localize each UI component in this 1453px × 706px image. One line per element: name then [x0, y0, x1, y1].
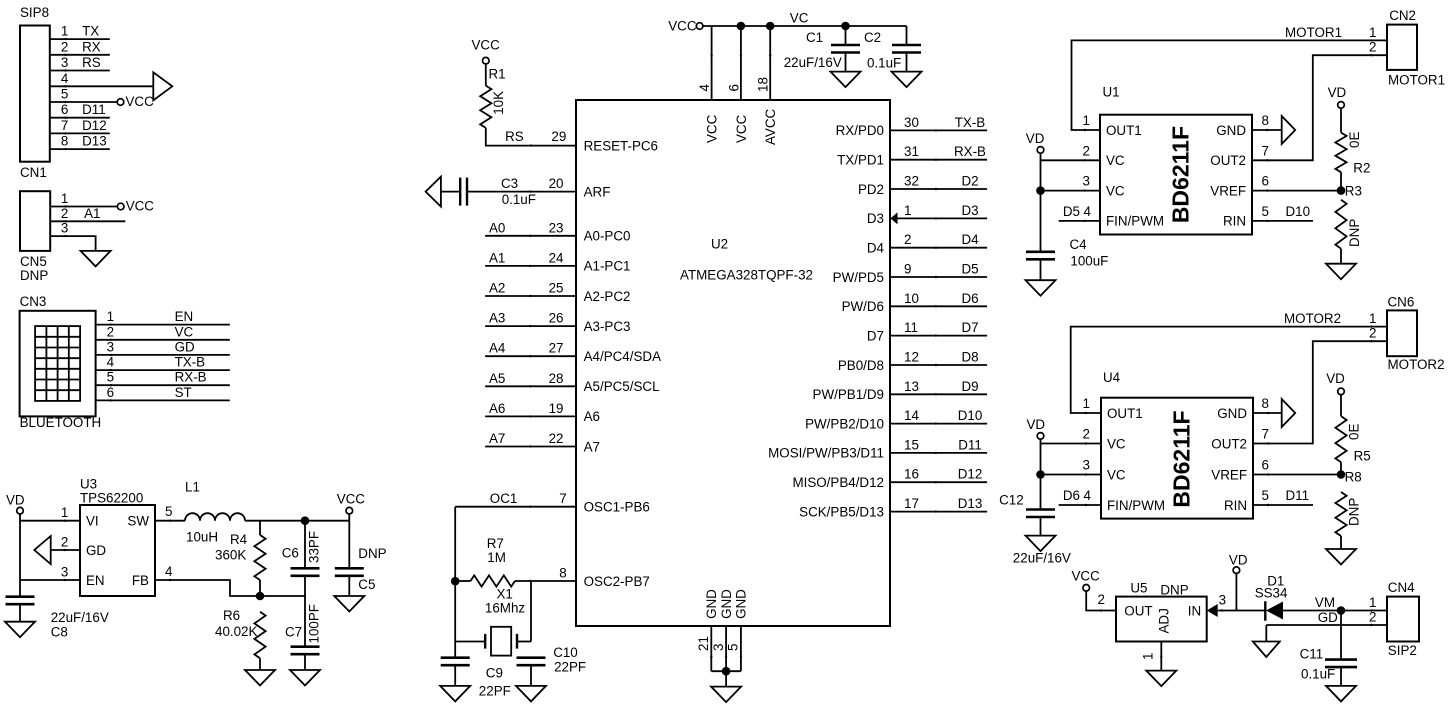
connector CN1 SIP8 body	[20, 26, 50, 162]
CN1 pin 6 net D11	[50, 117, 110, 119]
ground below R8	[1326, 549, 1356, 565]
U1 pin 6 VREF wire	[1252, 190, 1341, 192]
svg-text:D5: D5	[1063, 204, 1080, 219]
svg-text:1: 1	[61, 191, 68, 206]
svg-text:A7: A7	[489, 431, 505, 446]
svg-text:C3: C3	[501, 176, 518, 191]
wire L1 to VCC	[245, 520, 349, 522]
svg-text:ATMEGA328TQPF-32: ATMEGA328TQPF-32	[680, 268, 813, 283]
svg-text:6: 6	[61, 102, 68, 117]
svg-text:22uF/16V: 22uF/16V	[1013, 551, 1071, 566]
svg-text:D7: D7	[961, 320, 978, 335]
svg-text:9: 9	[904, 262, 911, 277]
svg-text:2: 2	[1083, 427, 1090, 442]
ground below C1	[831, 72, 861, 88]
svg-text:MOTOR1: MOTOR1	[1285, 25, 1342, 40]
svg-text:4: 4	[165, 564, 173, 579]
U4 pin 3 VC wire	[1040, 444, 1042, 510]
CN3 module hatch symbol	[35, 326, 80, 401]
svg-text:VD: VD	[6, 492, 25, 507]
svg-text:CN6: CN6	[1388, 295, 1415, 310]
svg-text:6: 6	[1262, 174, 1269, 189]
svg-text:VCC: VCC	[734, 114, 749, 143]
CN5 pin 3	[50, 236, 95, 251]
svg-text:6: 6	[107, 385, 114, 400]
svg-text:100uF: 100uF	[1070, 254, 1108, 269]
U2 right pin MISO/PB4/D12 net D12	[890, 481, 987, 483]
ground below C4	[1026, 280, 1056, 296]
svg-text:3: 3	[1083, 174, 1090, 189]
svg-text:DNP: DNP	[20, 268, 48, 283]
svg-text:12: 12	[904, 350, 919, 365]
wire OSC2 branch down	[530, 581, 532, 642]
svg-text:GND: GND	[719, 589, 734, 619]
U2 left pin A2-PC2	[485, 295, 576, 297]
svg-text:10: 10	[904, 291, 919, 306]
U4 pin 8 GND wire	[1253, 412, 1282, 414]
svg-text:C5: C5	[358, 577, 375, 592]
svg-text:OUT1: OUT1	[1106, 123, 1142, 138]
svg-text:5: 5	[1262, 488, 1269, 503]
svg-text:16: 16	[904, 467, 919, 482]
svg-text:3: 3	[711, 644, 726, 651]
svg-text:1: 1	[1083, 113, 1090, 128]
CN3 pin 5 net RX-B	[96, 384, 230, 386]
svg-text:13: 13	[904, 379, 919, 394]
U2 right pin PW/PB2/D10 net D10	[890, 423, 987, 425]
svg-text:DNP: DNP	[1160, 582, 1188, 597]
svg-text:TPS62200: TPS62200	[80, 490, 143, 505]
svg-text:CN4: CN4	[1388, 580, 1415, 595]
svg-text:7: 7	[1262, 427, 1269, 442]
U4 pin 7 OUT2 wire to CN6	[1253, 341, 1387, 443]
svg-text:14: 14	[904, 408, 919, 423]
U2 left pin A1-PC1	[485, 265, 576, 267]
svg-text:DNP: DNP	[1347, 219, 1362, 247]
svg-text:1: 1	[61, 24, 68, 39]
svg-text:MOSI/PW/PB3/D11: MOSI/PW/PB3/D11	[768, 446, 884, 461]
svg-text:0.1uF: 0.1uF	[867, 56, 901, 71]
wire D1 to CN4 net VM	[1283, 610, 1387, 612]
svg-text:U4: U4	[1103, 370, 1121, 385]
svg-text:21: 21	[696, 636, 711, 651]
U2 right pin PW/D6 net D6	[890, 305, 987, 307]
svg-text:8: 8	[1262, 113, 1269, 128]
svg-text:D12: D12	[958, 467, 983, 482]
junction at R4/R6/FB	[256, 592, 265, 601]
svg-text:TX: TX	[82, 24, 99, 39]
svg-text:PW/PD5: PW/PD5	[833, 270, 884, 285]
svg-text:A2: A2	[489, 281, 505, 296]
svg-text:OSC2-PB7: OSC2-PB7	[584, 574, 650, 589]
microcontroller U2 body	[576, 100, 890, 626]
svg-text:18: 18	[756, 77, 771, 92]
svg-text:D6: D6	[1063, 488, 1080, 503]
svg-text:RESET-PC6: RESET-PC6	[584, 138, 658, 153]
svg-text:GD: GD	[86, 543, 106, 558]
svg-text:C9: C9	[486, 665, 503, 680]
svg-text:C2: C2	[864, 30, 881, 45]
svg-text:ST: ST	[175, 385, 192, 400]
svg-text:C4: C4	[1070, 237, 1088, 252]
svg-text:7: 7	[559, 491, 566, 506]
svg-text:17: 17	[904, 496, 919, 511]
U3 pin 2 GD wire	[51, 549, 80, 551]
U2 left pin A6	[485, 415, 576, 417]
svg-text:5: 5	[726, 644, 741, 651]
svg-text:R6: R6	[223, 608, 240, 623]
svg-text:C6: C6	[282, 545, 299, 560]
svg-text:VCC: VCC	[1072, 568, 1101, 583]
U2 pin OSC2-PB7	[531, 580, 576, 582]
svg-text:VCC: VCC	[472, 37, 501, 52]
svg-text:5: 5	[165, 504, 172, 519]
svg-text:2: 2	[904, 232, 911, 247]
svg-text:D11: D11	[958, 437, 982, 452]
junction at C11/VM	[1337, 606, 1346, 615]
CN1 pin 4	[50, 85, 153, 87]
svg-text:A7: A7	[584, 439, 600, 454]
input arrow at U2 pin D3	[891, 212, 898, 224]
svg-text:1: 1	[1369, 25, 1376, 40]
svg-text:0E: 0E	[1347, 132, 1362, 148]
svg-text:VD: VD	[1027, 417, 1046, 432]
U1 pin 1 OUT1 wire to CN2 net MOTOR1	[1072, 40, 1388, 130]
svg-text:7: 7	[61, 118, 68, 133]
svg-text:D10: D10	[1286, 204, 1311, 219]
svg-text:FB: FB	[132, 573, 149, 588]
CN1 pin 2 net RX	[50, 54, 110, 56]
svg-text:2: 2	[1083, 143, 1090, 158]
svg-text:3: 3	[61, 565, 68, 580]
svg-text:3: 3	[107, 339, 114, 354]
svg-text:OUT: OUT	[1124, 603, 1152, 618]
svg-text:40.02K: 40.02K	[215, 624, 258, 639]
capacitor C3 on ARF	[467, 191, 576, 193]
svg-text:VD: VD	[1026, 131, 1045, 146]
svg-text:RS: RS	[505, 129, 524, 144]
svg-text:TX/PD1: TX/PD1	[837, 153, 884, 168]
U2 pin OSC1-PB6 net OC1	[455, 506, 576, 508]
svg-text:D11: D11	[1286, 488, 1310, 503]
svg-text:1: 1	[1083, 396, 1090, 411]
svg-text:1: 1	[1369, 595, 1376, 610]
U2 left pin A4/PC4/SDA	[485, 355, 576, 357]
svg-text:C12: C12	[999, 493, 1024, 508]
U1 pin 8 GND wire	[1252, 129, 1282, 131]
svg-text:A1-PC1: A1-PC1	[584, 259, 631, 274]
svg-text:A6: A6	[584, 409, 600, 424]
U2 GND pins 21 3 5	[710, 626, 712, 671]
svg-text:A1: A1	[489, 250, 505, 265]
svg-text:MOTOR2: MOTOR2	[1388, 357, 1445, 372]
svg-text:31: 31	[904, 144, 919, 159]
svg-text:20: 20	[549, 176, 564, 191]
svg-text:VC: VC	[175, 324, 194, 339]
svg-text:GD: GD	[175, 339, 195, 354]
U3 pin 1 VI wire	[20, 520, 80, 522]
svg-text:PW/PB2/D10: PW/PB2/D10	[805, 416, 884, 431]
svg-text:A5/PC5/SCL: A5/PC5/SCL	[584, 379, 660, 394]
svg-text:VM: VM	[1315, 595, 1335, 610]
svg-text:29: 29	[551, 129, 566, 144]
CN3 pin 6 net ST	[96, 399, 230, 401]
svg-text:D8: D8	[961, 350, 978, 365]
svg-text:GND: GND	[1216, 123, 1246, 138]
wire VD rail to C8	[19, 514, 21, 597]
svg-text:U2: U2	[711, 237, 728, 252]
svg-text:OUT2: OUT2	[1211, 436, 1247, 451]
U2 left pin A7	[485, 446, 576, 448]
svg-text:A3: A3	[489, 311, 505, 326]
svg-text:EN: EN	[86, 573, 105, 588]
svg-text:4: 4	[697, 84, 712, 92]
svg-text:2: 2	[107, 324, 114, 339]
regulator U5 DNP body	[1116, 597, 1207, 642]
signal arrow on CN1 pin 4	[153, 72, 172, 100]
regulator U3 body	[80, 505, 155, 596]
svg-text:GND: GND	[734, 589, 749, 619]
svg-text:4: 4	[107, 355, 115, 370]
svg-text:SIP2: SIP2	[1388, 643, 1417, 658]
svg-text:U3: U3	[80, 476, 97, 491]
svg-text:15: 15	[904, 437, 919, 452]
svg-text:22uF/16V: 22uF/16V	[51, 610, 109, 625]
CN5 pin 1	[50, 206, 117, 208]
junction at R2/R3/VREF	[1337, 186, 1346, 195]
U3 pin 3 EN wire	[20, 579, 80, 581]
U2 right pin D3 net D3	[890, 217, 987, 219]
U1 pin 4 FIN/PWM wire net D5	[1059, 220, 1100, 222]
signal arrow at U3 GD	[34, 536, 50, 564]
svg-text:1M: 1M	[487, 550, 506, 565]
svg-text:10K: 10K	[491, 91, 506, 115]
svg-text:C10: C10	[553, 645, 578, 660]
svg-text:D13: D13	[82, 134, 107, 149]
svg-text:GND: GND	[1217, 406, 1247, 421]
connector CN3 body	[20, 311, 96, 417]
svg-text:VCC: VCC	[126, 199, 155, 214]
svg-text:OSC1-PB6: OSC1-PB6	[584, 500, 650, 515]
U2 right pin D7 net D7	[890, 335, 987, 337]
U3 pin 5 SW wire	[155, 520, 185, 522]
U2 right pin RX/PD0 net TX-B	[890, 129, 987, 131]
junction at C6 top	[301, 516, 310, 525]
U2 right pin PB0/D8 net D8	[890, 364, 987, 366]
svg-text:AVCC: AVCC	[763, 108, 778, 145]
U4 pin 6 VREF wire	[1253, 474, 1341, 476]
svg-text:CN5: CN5	[20, 254, 47, 269]
wire OC1 to R7	[454, 507, 456, 582]
svg-text:RX/PD0: RX/PD0	[836, 123, 884, 138]
signal arrow at C3	[426, 177, 441, 207]
ground below C12	[1026, 536, 1056, 552]
ground below U5 pin 1	[1146, 671, 1176, 687]
ground below C10	[516, 686, 546, 702]
svg-text:VREF: VREF	[1210, 183, 1246, 198]
svg-text:D3: D3	[961, 203, 978, 218]
svg-text:D6: D6	[961, 291, 978, 306]
U5 pin 2 OUT wire	[1086, 591, 1116, 610]
svg-text:A4: A4	[489, 341, 506, 356]
svg-text:VC: VC	[1107, 436, 1126, 451]
svg-text:3: 3	[61, 55, 68, 70]
svg-text:1: 1	[61, 505, 68, 520]
svg-text:BD6211F: BD6211F	[1168, 126, 1194, 223]
CN1 pin 5	[50, 101, 117, 103]
svg-text:GND: GND	[704, 589, 719, 619]
U4 pin 2 VC wire	[1041, 439, 1102, 443]
svg-text:2: 2	[1098, 592, 1105, 607]
U2 right pin SCK/PB5/D13 net D13	[890, 511, 987, 513]
svg-text:VD: VD	[1328, 85, 1347, 100]
svg-text:25: 25	[549, 281, 564, 296]
svg-text:8: 8	[61, 134, 68, 149]
svg-text:R2: R2	[1353, 161, 1370, 176]
svg-text:R3: R3	[1345, 184, 1362, 199]
U1 pin 5 RIN wire net D10	[1252, 220, 1313, 222]
svg-text:SIP8: SIP8	[20, 5, 49, 20]
svg-text:CN2: CN2	[1389, 8, 1416, 23]
svg-text:VD: VD	[1229, 552, 1248, 567]
ground below C2	[892, 72, 922, 88]
svg-text:D13: D13	[958, 496, 983, 511]
svg-text:RS: RS	[82, 55, 101, 70]
svg-text:VI: VI	[86, 514, 99, 529]
svg-text:4: 4	[61, 71, 69, 86]
U2 right pin TX/PD1 net RX-B	[890, 159, 987, 161]
svg-text:D12: D12	[82, 118, 107, 133]
svg-text:3: 3	[1219, 593, 1226, 608]
svg-text:L1: L1	[185, 480, 200, 495]
svg-text:CN1: CN1	[20, 165, 47, 180]
svg-text:2: 2	[61, 39, 68, 54]
ground below C5	[334, 596, 364, 612]
svg-text:C11: C11	[1300, 646, 1324, 661]
svg-text:R4: R4	[230, 532, 248, 547]
ground below R6	[245, 670, 275, 686]
svg-text:D9: D9	[961, 379, 978, 394]
svg-text:TX-B: TX-B	[175, 355, 206, 370]
U1 pin 3 VC wire	[1040, 160, 1042, 252]
U2 pin 18 AVCC	[766, 22, 775, 31]
svg-text:PW/PB1/D9: PW/PB1/D9	[813, 387, 884, 402]
svg-text:A5: A5	[489, 371, 505, 386]
CN1 pin 1 net TX	[50, 38, 110, 40]
U2 right pin MOSI/PW/PB3/D11 net D11	[890, 452, 987, 454]
svg-text:0.1uF: 0.1uF	[502, 192, 536, 207]
CN3 pin 3 net GD	[96, 354, 230, 356]
CN1 pin 7 net D12	[50, 132, 110, 134]
svg-text:R8: R8	[1345, 470, 1362, 485]
U1 pin 2 VC wire	[1041, 153, 1101, 160]
svg-text:D11: D11	[82, 102, 106, 117]
svg-text:MOTOR1: MOTOR1	[1388, 73, 1445, 88]
svg-text:OC1: OC1	[490, 491, 518, 506]
connector CN2 body	[1387, 25, 1417, 70]
svg-text:R5: R5	[1354, 448, 1371, 463]
U2 pin 4 VCC	[711, 26, 713, 100]
U2 left pin A5/PC5/SCL	[485, 385, 576, 387]
connector CN5 body	[20, 191, 50, 251]
svg-text:OUT1: OUT1	[1107, 406, 1143, 421]
power symbol VCC at CN1 pin 5	[117, 99, 124, 106]
junction at R5/R8/VREF	[1337, 470, 1346, 479]
svg-text:VCC: VCC	[668, 19, 697, 34]
ground below C9	[440, 686, 470, 702]
svg-text:MISO/PB4/D12: MISO/PB4/D12	[792, 475, 884, 490]
U2 left pin A0-PC0	[485, 235, 576, 237]
svg-text:D2: D2	[961, 174, 978, 189]
svg-text:A0: A0	[489, 220, 505, 235]
U4 pin 5 RIN wire net D11	[1253, 504, 1313, 506]
svg-text:VC: VC	[1106, 183, 1125, 198]
svg-text:22uF/16V: 22uF/16V	[784, 55, 842, 70]
ground at CN5 pin 3	[81, 251, 111, 267]
svg-text:IN: IN	[1188, 603, 1201, 618]
svg-text:RX: RX	[82, 39, 101, 54]
svg-text:BD6211F: BD6211F	[1169, 410, 1195, 507]
ground below C11	[1326, 686, 1356, 702]
CN1 pin 8 net D13	[50, 148, 110, 150]
capacitor C2 0.1uF	[906, 26, 908, 45]
svg-text:1: 1	[904, 203, 911, 218]
motor driver U4 body	[1101, 398, 1253, 519]
svg-text:RIN: RIN	[1224, 498, 1247, 513]
svg-text:23: 23	[549, 220, 564, 235]
power symbol VCC at CN5 pin 1	[117, 203, 124, 210]
svg-text:ADJ: ADJ	[1157, 608, 1172, 633]
svg-text:VCC: VCC	[705, 114, 720, 143]
svg-text:26: 26	[549, 311, 564, 326]
svg-text:OUT2: OUT2	[1210, 153, 1246, 168]
U2 left pin A3-PC3	[485, 325, 576, 327]
svg-text:2: 2	[61, 535, 68, 550]
ground below C8	[5, 622, 35, 638]
svg-text:SCK/PB5/D13: SCK/PB5/D13	[799, 504, 884, 519]
ground below U2	[711, 687, 741, 703]
svg-text:RIN: RIN	[1223, 214, 1246, 229]
U1 pin 7 OUT2 wire to CN2	[1252, 55, 1387, 160]
U4 pin 1 OUT1 wire to CN6 net MOTOR2	[1071, 327, 1387, 413]
svg-text:0.1uF: 0.1uF	[1301, 667, 1335, 682]
svg-text:BLUETOOTH: BLUETOOTH	[20, 415, 102, 430]
svg-text:U5: U5	[1130, 581, 1147, 596]
ground at GD	[1253, 642, 1280, 658]
svg-text:C7: C7	[285, 625, 302, 640]
signal arrow at U4 GND	[1282, 399, 1296, 427]
svg-text:PW/D6: PW/D6	[842, 299, 884, 314]
svg-text:A2-PC2: A2-PC2	[584, 289, 631, 304]
svg-text:16Mhz: 16Mhz	[485, 600, 525, 615]
U2 right pin PW/PB1/D9 net D9	[890, 393, 987, 395]
svg-text:0E: 0E	[1347, 424, 1362, 440]
CN3 pin 1 net EN	[96, 324, 230, 326]
U2 right pin D4 net D4	[890, 247, 987, 249]
svg-text:PD2: PD2	[858, 182, 884, 197]
svg-text:A6: A6	[489, 401, 505, 416]
svg-text:DNP: DNP	[358, 546, 386, 561]
svg-text:4: 4	[1084, 204, 1092, 219]
svg-text:1: 1	[1369, 311, 1376, 326]
CN1 pin 3 net RS	[50, 70, 110, 72]
U3 pin 4 FB wire	[155, 580, 305, 596]
svg-text:7: 7	[1262, 143, 1269, 158]
svg-text:D10: D10	[958, 408, 983, 423]
ground below R3	[1326, 264, 1356, 280]
svg-text:D5: D5	[961, 262, 978, 277]
svg-text:C8: C8	[51, 625, 68, 640]
